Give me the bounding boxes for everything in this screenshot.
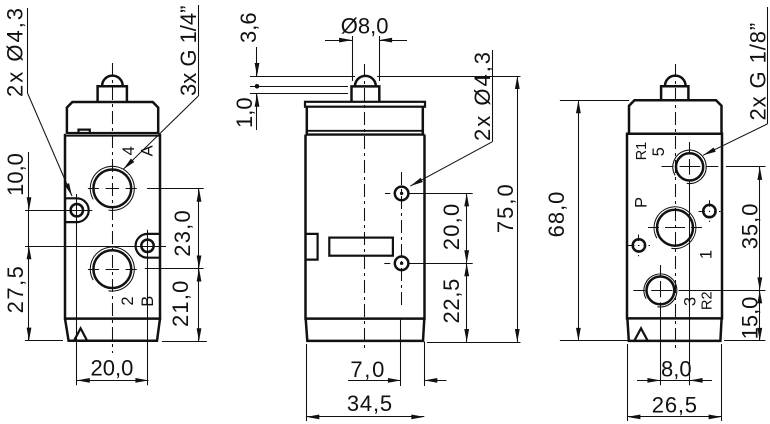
svg-text:27,5: 27,5 xyxy=(3,265,28,314)
port 3 vertical extension xyxy=(660,265,662,385)
port 2 thread arc xyxy=(90,247,134,291)
base right view xyxy=(627,318,721,341)
plunger dome left xyxy=(102,76,123,86)
body right view xyxy=(627,134,722,319)
mounting hole left (4.3) circle xyxy=(71,204,83,216)
svg-text:20,0: 20,0 xyxy=(439,203,464,251)
svg-text:2: 2 xyxy=(119,296,137,305)
body middle view xyxy=(306,135,425,319)
base middle view xyxy=(306,319,425,341)
dimension 35,0 xyxy=(726,167,766,291)
top plate middle view xyxy=(305,102,425,107)
dimension 23,0 xyxy=(145,189,204,269)
plunger stem left xyxy=(98,86,127,102)
leader 2x Ø4,3 left xyxy=(3,6,75,197)
svg-text:8,0: 8,0 xyxy=(661,357,692,382)
plunger stem middle xyxy=(352,86,380,101)
svg-text:3: 3 xyxy=(682,297,700,306)
dimension 75,0 xyxy=(377,76,521,342)
svg-text:1: 1 xyxy=(698,250,716,259)
plunger stem right xyxy=(661,86,688,100)
mounting hole left vertical centerline xyxy=(76,194,78,385)
svg-text:34,5: 34,5 xyxy=(347,391,393,416)
label recess middle view xyxy=(329,238,393,256)
svg-text:10,0: 10,0 xyxy=(3,153,28,196)
port 5 vertical extension xyxy=(689,142,691,385)
svg-text:2x Ø4,3: 2x Ø4,3 xyxy=(470,50,495,141)
svg-text:R1: R1 xyxy=(634,142,650,161)
body left view xyxy=(65,134,160,319)
port 2 inner circle xyxy=(93,250,131,288)
screw hole bottom middle xyxy=(384,257,408,271)
svg-text:1,0: 1,0 xyxy=(232,97,257,128)
port P horizontal centerline xyxy=(648,227,702,229)
centerline middle view xyxy=(364,64,366,349)
dimension 68,0 xyxy=(544,100,629,341)
side tab middle view xyxy=(306,234,318,260)
svg-text:26,5: 26,5 xyxy=(652,393,698,418)
svg-text:Ø8,0: Ø8,0 xyxy=(341,14,389,39)
port 5 inner circle xyxy=(676,153,703,180)
dimension 27,5 xyxy=(3,246,63,340)
port 3 thread arc xyxy=(644,274,677,307)
plunger dome right xyxy=(665,76,686,86)
mounting hole right vertical centerline xyxy=(147,230,149,385)
svg-text:20,0: 20,0 xyxy=(90,356,133,381)
port label 5 xyxy=(650,147,668,156)
svg-text:P: P xyxy=(633,197,651,208)
port label R2 xyxy=(700,291,716,310)
leader 3x G 1/4" xyxy=(122,5,201,171)
cap right view xyxy=(629,100,722,133)
position triangle right view xyxy=(635,328,648,340)
port P thread arc xyxy=(654,207,696,249)
svg-text:22,5: 22,5 xyxy=(439,278,464,324)
svg-text:7,0: 7,0 xyxy=(350,357,386,382)
centerline left view xyxy=(112,63,114,353)
dimension 20,0 middle xyxy=(409,193,473,263)
svg-text:23,0: 23,0 xyxy=(170,209,195,257)
port P inner circle xyxy=(657,210,693,246)
screw hole right right-view xyxy=(699,200,721,222)
svg-text:75,0: 75,0 xyxy=(493,182,518,233)
svg-text:21,0: 21,0 xyxy=(168,279,193,327)
base left view xyxy=(65,319,160,341)
svg-text:R2: R2 xyxy=(700,291,716,310)
svg-text:2x Ø4,3: 2x Ø4,3 xyxy=(3,6,28,97)
dimension 34,5 xyxy=(306,344,424,421)
dimension Ø8,0 xyxy=(325,14,407,82)
cap tab left view xyxy=(79,130,90,132)
svg-text:B: B xyxy=(139,296,157,307)
dimension 7,0 xyxy=(348,319,446,386)
svg-text:4: 4 xyxy=(120,146,138,155)
dimension 15,0 xyxy=(724,290,765,341)
port label 3 xyxy=(682,297,700,306)
port 4 thread arc xyxy=(90,166,134,210)
svg-text:2x G 1/8”: 2x G 1/8” xyxy=(746,22,770,121)
port label A xyxy=(139,145,157,156)
port label 2 xyxy=(119,296,137,305)
svg-text:15,0: 15,0 xyxy=(738,297,763,340)
mounting hole right (4.3) circle xyxy=(141,240,153,252)
svg-text:3x G 1/4”: 3x G 1/4” xyxy=(176,6,201,96)
port label 4 xyxy=(120,146,138,155)
svg-text:68,0: 68,0 xyxy=(544,191,569,238)
dimension 20,0 left view xyxy=(77,356,149,383)
svg-text:A: A xyxy=(139,145,157,156)
port 3 horizontal centerline xyxy=(633,290,765,292)
dimension 22,5 xyxy=(427,263,521,342)
mounting hole right boss xyxy=(136,234,159,258)
screw hole left right-view xyxy=(628,235,650,257)
port 5 thread arc xyxy=(673,150,706,183)
port 5 horizontal centerline xyxy=(662,166,719,168)
port 4 inner circle xyxy=(93,170,131,208)
dimension 26,5 xyxy=(627,344,721,421)
dimension 8,0 xyxy=(637,357,712,383)
port 3 inner circle xyxy=(647,277,675,305)
screw hole top middle xyxy=(385,187,408,201)
mounting hole left boss xyxy=(65,198,89,222)
centerline right view xyxy=(675,64,677,350)
svg-text:5: 5 xyxy=(650,147,668,156)
port label B xyxy=(139,296,157,307)
dimension 21,0 xyxy=(162,269,207,342)
cap left view xyxy=(67,102,158,134)
dimension 3,6 xyxy=(236,12,355,88)
plunger dome middle xyxy=(355,76,376,86)
port label 1 xyxy=(698,250,716,259)
port label P xyxy=(633,197,651,208)
leader 2x G 1/8" xyxy=(702,7,770,157)
screw holes centerline middle xyxy=(401,172,403,309)
upper section middle view xyxy=(307,107,423,134)
position triangle left view xyxy=(74,328,87,340)
dimension 1,0 xyxy=(232,94,348,131)
port label R1 xyxy=(634,142,650,161)
leader 2x Ø4,3 middle xyxy=(409,50,495,188)
dimension 10,0 xyxy=(3,152,166,259)
port 4 centerline xyxy=(88,188,137,190)
svg-text:3,6: 3,6 xyxy=(236,12,261,43)
svg-text:35,0: 35,0 xyxy=(738,202,763,249)
port 2 centerline xyxy=(88,269,137,271)
